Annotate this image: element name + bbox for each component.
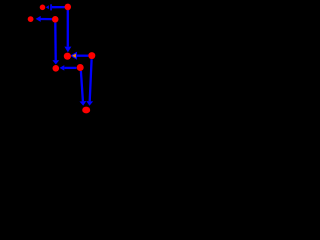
wire edge N2->N1 shaft — [52, 6, 65, 8]
node N9 — [82, 107, 90, 114]
arrowhead edge N4->N7 — [52, 60, 59, 64]
wire edge N2->N5 shaft — [67, 10, 69, 47]
arrowhead edge N6->N9 — [86, 101, 93, 106]
wire edge N4->N7 shaft — [54, 23, 57, 61]
arrowhead edge N8->N9 — [80, 101, 87, 106]
arrowhead edge N2->N1 (base bar) — [50, 4, 52, 10]
arrowhead edge N2->N1 (tip chevron) — [46, 5, 49, 9]
wire edge N8->N7 shaft — [64, 67, 76, 69]
node N8 — [77, 64, 84, 71]
node N5 — [64, 53, 71, 60]
arrowhead edge N6->N5 (orange fill) — [71, 53, 77, 59]
node N6 — [88, 52, 95, 59]
arrowhead edge N4->N3 — [36, 16, 41, 22]
node N4 — [52, 16, 59, 23]
node N1 — [40, 5, 46, 11]
wire edge N8->N9 shaft — [81, 71, 83, 101]
wire edge N6->N9 shaft — [90, 59, 92, 101]
wire edge N4->N3 shaft — [40, 18, 52, 20]
arrowhead edge N2->N5 — [64, 47, 71, 53]
node N7 — [53, 65, 60, 72]
node N3 — [28, 16, 34, 22]
node N2 — [65, 4, 72, 11]
wire edge N6->N5 shaft — [77, 55, 89, 57]
arrowhead edge N8->N7 — [60, 65, 65, 71]
